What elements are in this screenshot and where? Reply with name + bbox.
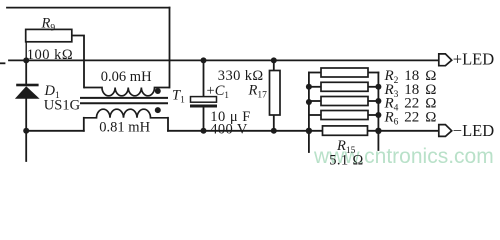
wire bus to diode cathode xyxy=(25,60,27,84)
junction node R9/D1 on top bus xyxy=(23,57,29,63)
wire left edge stub xyxy=(0,62,5,64)
transformer T1 primary winding 0.06 mH xyxy=(84,88,170,96)
svg-text:0.81 mH: 0.81 mH xyxy=(99,120,150,136)
junction node C1 bottom xyxy=(201,128,207,134)
wire C1 bottom lead xyxy=(203,107,205,130)
wire R6 leads xyxy=(309,114,321,116)
wire C1 top lead xyxy=(203,60,205,96)
junction node right rail R3 xyxy=(375,84,381,90)
resistor R9 xyxy=(26,29,72,41)
wire right rail of resistor bank xyxy=(377,73,379,151)
junction node right rail R4 xyxy=(375,98,381,104)
junction node left rail R3 xyxy=(306,84,312,90)
capacitor C1 positive plate xyxy=(191,97,217,103)
svg-text:400 V: 400 V xyxy=(210,121,248,137)
wire bottom bus middle segment xyxy=(168,130,323,132)
wire diode anode down to bottom bus and stub below xyxy=(25,98,27,161)
wire top bus xyxy=(9,59,439,61)
svg-text:+LED: +LED xyxy=(453,50,494,69)
connector flag +LED xyxy=(439,54,452,66)
junction node right rail R6 xyxy=(375,112,381,118)
resistor R15 xyxy=(323,126,368,135)
wire left rail of resistor bank xyxy=(308,73,310,153)
junction node left rail R4 xyxy=(306,99,312,105)
resistor R4 xyxy=(321,97,368,106)
svg-text:100 kΩ: 100 kΩ xyxy=(27,47,73,63)
diode D1 triangle xyxy=(15,86,40,98)
resistor R17 xyxy=(270,71,281,116)
resistor R6 xyxy=(321,111,368,120)
wire R3 leads xyxy=(309,86,321,88)
junction node R17 bottom xyxy=(271,128,277,134)
svg-text:R622Ω: R622Ω xyxy=(384,109,437,127)
diode D1 cathode bar xyxy=(16,84,38,87)
wire vertical from top line to primary winding right end xyxy=(169,8,171,88)
wire secondary winding left vertical xyxy=(83,118,85,131)
transformer T1 core xyxy=(80,97,168,99)
wire R2 leads xyxy=(309,72,321,74)
junction node R17 top xyxy=(271,57,277,63)
capacitor C1 negative plate xyxy=(190,105,217,108)
wire R17 bottom lead xyxy=(273,115,275,131)
wire R9 left lead down to bus xyxy=(25,42,27,61)
svg-text:0.06 mH: 0.06 mH xyxy=(101,69,152,85)
svg-text:US1G: US1G xyxy=(44,97,81,113)
transformer T1 secondary winding 0.81 mH xyxy=(84,109,168,118)
junction node right rail bus xyxy=(375,128,381,134)
transformer phase dot secondary xyxy=(155,107,161,113)
svg-text:−LED: −LED xyxy=(453,121,494,140)
wire secondary winding right vertical xyxy=(167,118,169,131)
wire bottom bus left segment xyxy=(26,130,84,132)
wire R9 right lead xyxy=(72,36,84,88)
junction node D1 bottom bus xyxy=(23,128,29,134)
connector flag -LED xyxy=(439,125,452,137)
svg-text:5.1 Ω: 5.1 Ω xyxy=(329,153,364,169)
wire R17 top lead xyxy=(273,60,275,70)
junction node C1 top xyxy=(201,57,207,63)
wire top line xyxy=(7,7,170,9)
transformer phase dot primary xyxy=(155,88,161,94)
wire R4 leads xyxy=(309,100,321,102)
resistor R3 xyxy=(321,82,368,91)
wire bottom bus right segment to -LED xyxy=(368,130,439,132)
junction node left rail bus xyxy=(306,128,312,134)
resistor R2 xyxy=(321,68,368,77)
